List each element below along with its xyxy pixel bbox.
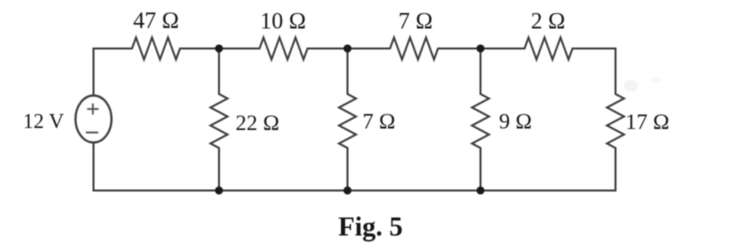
svg-text:22 Ω: 22 Ω	[236, 110, 280, 135]
svg-text:17 Ω: 17 Ω	[626, 109, 670, 134]
svg-text:9 Ω: 9 Ω	[499, 109, 532, 134]
svg-text:47 Ω: 47 Ω	[133, 8, 179, 33]
svg-text:Fig. 5: Fig. 5	[338, 212, 403, 242]
svg-text:7 Ω: 7 Ω	[363, 109, 396, 134]
svg-text:7 Ω: 7 Ω	[398, 8, 432, 33]
svg-text:10 Ω: 10 Ω	[260, 8, 306, 33]
svg-text:2 Ω: 2 Ω	[531, 9, 565, 34]
svg-text:12 V: 12 V	[23, 109, 64, 133]
